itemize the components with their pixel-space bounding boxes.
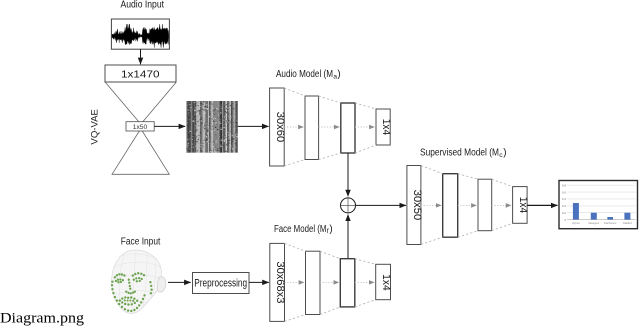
svg-text:0.3: 0.3 [562,204,567,208]
audio model layer 2 [305,96,319,160]
svg-text:1x4: 1x4 [517,197,529,214]
concat node (circle-plus) [341,198,356,213]
VQ-VAE encoder funnel [106,83,177,124]
svg-text:30x60: 30x60 [274,112,286,143]
svg-text:Audio Input: Audio Input [121,0,165,10]
inner lip dots [124,299,126,301]
arrow: face model to concat [347,215,349,259]
chart gridlines [567,185,636,213]
audio model internal arrows [284,126,374,128]
nose base dots [125,291,127,293]
face landmarks (green dots) [111,272,153,312]
face ear [157,277,166,292]
svg-text:0.4: 0.4 [562,197,567,201]
face model layer 2 [306,251,321,314]
right eye dots [133,279,135,281]
VQ-VAE decoder funnel [112,130,169,175]
chart y tick labels [562,183,567,221]
svg-text:Preprocessing: Preprocessing [194,277,247,289]
svg-text:): ) [503,148,506,159]
svg-text:Supervised Model (M: Supervised Model (M [420,148,499,159]
svg-text:0.6: 0.6 [562,190,567,194]
audio model layer 3 [341,103,355,153]
svg-text:1x4: 1x4 [380,119,392,136]
right eyebrow dots [132,274,134,276]
svg-text:): ) [337,69,340,80]
svg-text:Kachanov: Kachanov [604,221,617,225]
supervised model layer 3 [478,179,492,231]
outer lip dots [119,299,121,301]
svg-text:1x4: 1x4 [380,274,392,291]
svg-text:0.2: 0.2 [562,211,567,215]
arrow: audio model to concat [347,153,349,196]
svg-text:Face Model (M: Face Model (M [274,224,327,235]
svg-text:Zysne: Zysne [572,221,580,225]
svg-text:Glasgow: Glasgow [588,221,600,225]
audio waveform frame [111,19,169,49]
svg-text:Madrid: Madrid [623,221,632,225]
face model dashed connectors [285,243,376,321]
svg-text:VQ-VAE: VQ-VAE [90,109,101,145]
svg-text:1x50: 1x50 [133,124,148,131]
arrow: face to preprocessing [168,281,191,283]
supervised model internal arrows [421,204,511,206]
box: 1x1470 [105,65,176,82]
supervised model layer 4: 1x4 [513,187,528,224]
arrow: latent code to spectrogram [155,125,186,127]
face mesh head [112,250,166,314]
arrow: concat to supervised model [356,204,407,206]
jawline dots [111,281,113,283]
arrow: supervised model to result chart [527,204,557,206]
spectrogram image [186,101,238,153]
face model internal arrows [285,281,375,283]
box: Preprocessing [193,273,250,294]
svg-text:1x1470: 1x1470 [121,69,160,80]
audio model dashed connectors [284,88,376,166]
result bar chart frame [559,181,638,229]
audio model layer 4: 1x4 [376,109,390,145]
svg-text:30x68x3: 30x68x3 [274,261,286,303]
supervised model layer 2 [443,174,458,238]
supervised model dashed connectors [421,166,513,245]
left eye dots [115,280,117,282]
face model layer 4: 1x4 [376,264,391,299]
arrow: waveform to 1x1470 box [140,49,142,64]
left eyebrow dots [114,276,116,278]
VQ-VAE latent code box 1x50 [126,122,154,131]
svg-text:Diagram.png: Diagram.png [0,310,85,326]
face mesh shading lines [113,251,162,311]
right cheek contour dots [149,281,151,283]
audio waveform signal [112,24,169,48]
supervised model layer 1: 30x50 [407,166,421,245]
nose bridge dots [128,279,130,281]
audio model layer 1: 30x60 [270,88,285,166]
svg-text:): ) [329,224,332,235]
svg-text:Face Input: Face Input [121,237,161,248]
chart x labels [572,221,632,225]
svg-text:Audio Model (M: Audio Model (M [276,69,333,80]
chart bars [573,203,631,220]
arrow: spectrogram to audio model [238,125,269,127]
face model layer 3 [340,259,355,307]
face model layer 1: 30x68x3 [270,243,285,321]
svg-text:0.8: 0.8 [562,183,567,187]
arrow: preprocessing to face model [249,281,269,283]
